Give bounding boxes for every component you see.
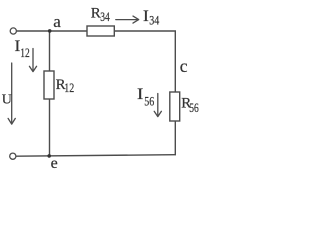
svg-text:56: 56 bbox=[144, 94, 154, 109]
svg-text:I: I bbox=[143, 8, 149, 25]
svg-text:34: 34 bbox=[149, 13, 159, 28]
svg-text:U: U bbox=[2, 93, 12, 108]
svg-text:e: e bbox=[51, 155, 58, 172]
svg-text:34: 34 bbox=[100, 9, 110, 24]
svg-text:I: I bbox=[137, 86, 144, 103]
svg-text:12: 12 bbox=[64, 80, 74, 95]
svg-text:12: 12 bbox=[20, 45, 30, 60]
svg-text:a: a bbox=[53, 12, 61, 31]
svg-text:56: 56 bbox=[189, 100, 199, 115]
svg-text:c: c bbox=[180, 56, 188, 76]
